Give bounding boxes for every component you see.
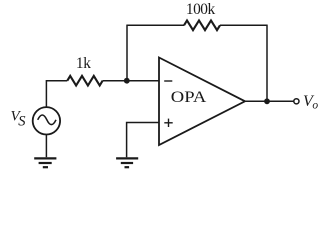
op-amp OPA triangle	[159, 58, 245, 146]
label VS	[11, 108, 27, 129]
ground (under source)	[34, 158, 56, 167]
wire: left feedback vertical (node A down to inverting input node)	[126, 25, 128, 81]
wire: source top vertical up to input row	[46, 81, 67, 107]
resistor 100k (feedback)	[184, 21, 220, 31]
label Vo	[303, 93, 318, 112]
junction node: output	[264, 98, 270, 104]
resistor 1k (input)	[67, 76, 102, 86]
svg-text:o: o	[312, 100, 318, 112]
wire: top feedback right horizontal segment	[220, 24, 267, 26]
source VS (sine source circle)	[33, 107, 60, 134]
wire: source bottom to ground	[45, 135, 47, 158]
wire: 1k to op-amp inverting input	[103, 80, 159, 82]
ground (under non-inverting input)	[116, 158, 138, 167]
svg-text:OPA: OPA	[171, 88, 207, 105]
output terminal (open circle)	[294, 99, 299, 104]
wire: op-amp output to terminal	[245, 100, 294, 102]
wire: non-inverting input to ground drop	[127, 123, 159, 158]
op-amp non-inverting input plus sign	[164, 119, 172, 127]
wire: right feedback vertical (down to output node)	[266, 25, 268, 102]
svg-text:100k: 100k	[186, 1, 216, 18]
wire: top feedback left horizontal segment	[127, 24, 184, 26]
op-amp inverting input minus sign	[164, 80, 172, 82]
svg-text:S: S	[18, 113, 26, 129]
svg-text:1k: 1k	[76, 55, 91, 72]
junction node: inverting input	[124, 78, 130, 84]
